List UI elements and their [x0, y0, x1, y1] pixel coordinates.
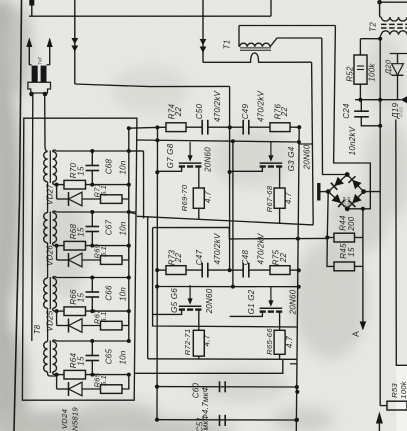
resistor R74	[166, 123, 202, 132]
label 470/2kV of C48	[256, 233, 265, 265]
junction right rail snubber2	[295, 418, 299, 422]
arrow up on output rail	[376, 412, 383, 431]
junction source G3G4 at mid rail	[228, 170, 232, 174]
capacitor C67	[86, 212, 100, 246]
label C24	[342, 103, 351, 119]
wire L1 down right of T1 (to bridge bottom)	[334, 26, 371, 209]
transformer T2 winding upper	[380, 0, 407, 21]
wire T1 secondary with hump	[203, 53, 312, 62]
mosfet pair G5 G6	[153, 285, 202, 330]
junction bus-cap cell VD26	[90, 210, 94, 214]
svg-text:R67-68: R67-68	[265, 185, 274, 212]
junction midpoint to bridge rail	[296, 237, 300, 241]
svg-text:15: 15	[347, 247, 356, 257]
resistor R45	[334, 262, 363, 271]
svg-text:VD25: VD25	[46, 310, 55, 331]
resistor R67-68	[274, 188, 285, 224]
wire T2 bottom to R52 top	[360, 37, 382, 41]
junction R44 tap	[325, 235, 329, 239]
enclosure box of T8 module	[22, 118, 136, 400]
resistor R68	[57, 241, 129, 250]
label 100k of R52	[368, 63, 377, 82]
svg-text:R53: R53	[390, 383, 399, 398]
label R64	[69, 352, 78, 368]
svg-text:ТкГ: ТкГ	[38, 56, 44, 64]
junction lower gate at rail 157	[155, 285, 159, 289]
svg-text:100k: 100k	[368, 63, 377, 82]
label 470/2kV of C47	[213, 233, 222, 265]
wire right rail x=298 (drain bus)	[296, 127, 299, 431]
svg-text:Т2: Т2	[369, 22, 378, 32]
wire rail x=128.8 (cells right rail)	[128, 128, 130, 341]
junction plug pin 2	[43, 92, 48, 97]
label 15 of R64	[77, 356, 86, 366]
terminal bar left of bridge	[319, 183, 328, 201]
label 15 of R45	[347, 247, 356, 257]
svg-text:200: 200	[347, 216, 356, 231]
label T1	[223, 40, 232, 50]
capacitor C24	[354, 100, 382, 128]
junction snubber bottom right	[294, 418, 298, 422]
junction bridge top	[345, 172, 350, 177]
label T2	[369, 22, 378, 32]
svg-text:C48: C48	[241, 249, 250, 265]
svg-text:22: 22	[174, 253, 183, 264]
junction drive mid upper	[228, 125, 232, 129]
junction bus-rail cell VD26	[127, 210, 131, 214]
transformer T8 winding pair cell VD27	[44, 150, 57, 213]
wire secondary bus of cell VD27	[57, 150, 144, 152]
wire plug pin1 down (primary return)	[32, 96, 33, 341]
junction R-row rail cell VD25	[127, 309, 131, 313]
label 20N60 of G5G6	[205, 288, 214, 314]
transformer T8 winding pair cell VD26	[44, 211, 57, 278]
resistor R76	[270, 123, 299, 132]
label TkG of connector	[38, 56, 44, 64]
transformer T2 winding lower	[380, 31, 407, 39]
junction winding-bottom cell VD27	[55, 183, 59, 187]
wire up at x=271 to top edge	[270, 0, 272, 16]
label C49	[241, 103, 250, 119]
svg-text:C24: C24	[342, 103, 351, 119]
junction bus-cap cell VD25	[90, 276, 94, 280]
svg-text:G3 G4: G3 G4	[287, 146, 296, 171]
capacitor C66	[86, 278, 100, 312]
svg-text:10n: 10n	[119, 350, 128, 364]
svg-text:R65-66: R65-66	[265, 328, 274, 355]
svg-text:5.1: 5.1	[99, 311, 108, 322]
label A	[351, 331, 361, 337]
label 22 of R76	[280, 107, 289, 118]
wire L2 from T1 winding end down (to bridge top)	[322, 38, 347, 175]
junction bus-cap cell VD24	[90, 339, 94, 343]
label R70	[69, 162, 78, 178]
label 10n of C65	[119, 350, 128, 364]
svg-text:C66: C66	[105, 285, 114, 301]
page border (left edge of scanned sheet)	[14, 0, 22, 431]
svg-text:R72-71: R72-71	[183, 329, 192, 356]
mosfet pair G3 G4	[230, 142, 283, 188]
junction R-row cap cell VD27	[90, 183, 94, 187]
capacitor C65	[86, 341, 100, 375]
wire gate net lower (y=286.5)	[157, 286, 299, 288]
transformer T1 primary	[239, 26, 322, 47]
arrow A (down)	[360, 266, 367, 330]
svg-text:10n: 10n	[119, 221, 128, 235]
svg-text:4.7: 4.7	[203, 334, 212, 346]
svg-text:470/2kV: 470/2kV	[256, 91, 265, 123]
label R67	[93, 309, 102, 324]
junction winding-bottom cell VD26	[55, 244, 59, 248]
label VD26	[46, 245, 55, 266]
label 10n of C68	[119, 160, 128, 174]
label G3 G4	[287, 146, 296, 171]
junction T2 top lead	[377, 0, 407, 5]
label C60	[192, 382, 201, 398]
svg-text:Т1: Т1	[223, 40, 232, 50]
label C48	[241, 249, 250, 265]
label 10n of C67	[119, 221, 128, 235]
label 200 of R44	[347, 216, 356, 231]
svg-text:4.7: 4.7	[285, 336, 294, 348]
svg-text:C68: C68	[105, 158, 114, 174]
label R67-68	[265, 185, 274, 212]
wire stub to top edge (thick mark)	[29, 0, 34, 16]
svg-text:R69-70: R69-70	[180, 184, 189, 211]
wire output top net y=99.7 (R52 bottom / D19)	[355, 98, 401, 102]
label VD27	[46, 184, 55, 205]
label 470/2kV of C49	[256, 91, 265, 123]
svg-text:15: 15	[77, 356, 86, 366]
label 4.7 of R67-68	[284, 192, 293, 204]
svg-text:Т8: Т8	[33, 324, 42, 334]
junction bridge left	[326, 189, 331, 194]
junction gate net at rail 157	[155, 138, 159, 142]
resistor R70-pair 5.1	[101, 185, 129, 204]
svg-text:C50: C50	[195, 103, 204, 119]
junction snubber top right	[295, 385, 299, 389]
svg-text:C49: C49	[241, 103, 250, 119]
wire main bus (T1 return)	[137, 216, 313, 225]
junction drive mid lower	[228, 268, 232, 272]
label R74	[167, 103, 176, 119]
bridge diode bottom-right (filled)	[349, 194, 362, 207]
svg-text:Д1-Д4: Д1-Д4	[343, 197, 347, 208]
wire snubber stub right	[290, 363, 297, 365]
svg-text:10n: 10n	[119, 287, 128, 301]
label D20	[384, 59, 393, 75]
transformer T8 label	[33, 324, 42, 334]
rectifier bridge VD17-VD20 diamond	[328, 175, 363, 209]
label C68	[105, 158, 114, 174]
wire D19 branch down to output box	[396, 120, 407, 431]
svg-text:470/2kV: 470/2kV	[256, 233, 265, 265]
svg-text:C60: C60	[192, 382, 201, 398]
junction upper RC at rail 157	[155, 125, 159, 129]
svg-text:R52: R52	[346, 66, 355, 82]
svg-text:15: 15	[77, 166, 86, 176]
wire R44/R45 right rail from bridge-bottom net	[361, 207, 365, 267]
arrow down at x=203 (T1 secondary lead)	[200, 0, 207, 62]
wire plug pin2 down to T8 primary top	[45, 96, 48, 152]
svg-text:470/2kV: 470/2kV	[213, 233, 222, 265]
resistor R68-pair 5.1	[101, 246, 129, 265]
label R52	[346, 66, 355, 82]
svg-text:20N60: 20N60	[303, 144, 312, 170]
wire mid rail B	[232, 141, 234, 286]
label 22 of R73	[174, 253, 183, 264]
label R76	[274, 103, 283, 119]
capacitor C49	[230, 120, 270, 135]
label R53	[390, 383, 399, 398]
label R69	[93, 243, 102, 258]
transformer T2 core	[381, 24, 407, 28]
svg-text:G7 G8: G7 G8	[166, 143, 175, 168]
label 5.1 of R71	[99, 185, 108, 196]
junction lower gate mid rail	[231, 285, 235, 289]
connector XP1 plug body	[28, 65, 51, 93]
capacitor C47	[202, 263, 229, 278]
wire secondary bus of cell VD26	[57, 212, 137, 214]
label R69-70	[180, 184, 189, 211]
label C66	[105, 285, 114, 301]
svg-text:С51: С51	[196, 417, 205, 431]
svg-text:C65: C65	[105, 348, 114, 364]
svg-text:20N60: 20N60	[205, 288, 214, 314]
wire W1 from arrow x=74.8 to middle rail	[75, 84, 230, 87]
svg-text:4.7: 4.7	[284, 192, 293, 204]
label 4.7 of R65-66	[285, 336, 294, 348]
diode VD26	[57, 246, 101, 267]
label R73	[168, 249, 177, 265]
svg-text:10n2kV: 10n2kV	[348, 126, 357, 155]
svg-text:100k: 100k	[399, 380, 407, 399]
transformer T1 core	[240, 48, 271, 50]
transformer T8 winding pair cell VD24	[44, 340, 57, 376]
label R45	[339, 243, 348, 259]
svg-text:5.1: 5.1	[99, 375, 108, 386]
junction winding-bottom cell VD24	[55, 373, 59, 377]
label R71	[93, 183, 102, 198]
svg-text:5.1: 5.1	[99, 185, 108, 196]
junction bus-rail cell VD27	[127, 149, 131, 153]
label 4.7 of R69-70	[204, 191, 213, 203]
label G1 G2	[247, 289, 256, 314]
arrow down at x=74.8 (drive mid input)	[71, 0, 78, 84]
junction plug pin 1	[29, 92, 34, 97]
label 5.1 of R65	[99, 375, 108, 386]
wire gate-RC net lower (y=270)	[157, 269, 166, 271]
junction bus-rail cell VD25	[127, 276, 131, 280]
wire cell2 bus branch down rail x=147.7	[147, 216, 149, 358]
junction source G7G8 at rail	[155, 170, 159, 174]
resistor R66-pair 5.1	[101, 311, 129, 330]
wire gate net stub to L3	[299, 143, 313, 145]
transformer T8 winding pair cell VD25	[44, 277, 57, 342]
label 15 of R70	[77, 166, 86, 176]
wire rail x=157.4 (drive return rail)	[156, 127, 159, 420]
wire snubber bottom y=419.7	[157, 419, 297, 421]
wire secondary bus of cell VD25	[57, 277, 129, 279]
wire top horizontal net y=16	[29, 15, 271, 17]
label R44	[339, 215, 348, 231]
resistor R64	[57, 370, 129, 379]
label 470/2kV of C50	[213, 91, 222, 123]
junction snubber top left	[155, 385, 159, 389]
junction bridge right	[361, 189, 366, 194]
wire R44/R45 left rail lower	[327, 238, 334, 267]
label C65	[105, 348, 114, 364]
label 22 of R75	[279, 253, 288, 264]
label 4.7mkF of C60	[201, 385, 210, 430]
label 22 of R74	[174, 107, 183, 118]
label 10n2kV of C24	[348, 126, 357, 155]
svg-text:15: 15	[77, 293, 86, 303]
bridge diode top-left (filled)	[331, 177, 344, 190]
label R68	[69, 223, 78, 239]
svg-text:N5819: N5819	[71, 407, 80, 431]
capacitor C60	[220, 381, 226, 392]
wire gate-RC net upper (y=127)	[129, 127, 166, 128]
wire lower cell frame	[153, 227, 328, 327]
wire cell1 bus branch down to main bus	[143, 151, 145, 218]
label 10n of C66	[119, 287, 128, 301]
bridge diode top-right (filled)	[349, 176, 362, 189]
label 100k of R53	[399, 380, 407, 399]
svg-text:G5 G6: G5 G6	[170, 288, 179, 313]
svg-text:Д20: Д20	[384, 59, 393, 75]
junction R-row rail cell VD27	[127, 183, 131, 187]
label G7 G8	[166, 143, 175, 168]
label R75	[272, 249, 281, 265]
wire L3 from T1 secondary down (to MOSFET source bus)	[312, 62, 314, 225]
junction snubber bottom left	[155, 418, 159, 422]
mosfet pair G7 G8	[157, 142, 201, 188]
label 4.7 of R72-71	[203, 334, 212, 346]
arrow mains N (up)	[47, 38, 53, 66]
label C51	[196, 417, 205, 431]
label C67	[105, 219, 114, 235]
wire right rail from T2 down to R53	[379, 39, 381, 406]
wire bridge right to T2 rail	[364, 191, 381, 193]
resistor R69-70	[193, 188, 204, 219]
svg-text:22: 22	[280, 107, 289, 118]
label R65-66	[265, 328, 274, 355]
resistor R75	[270, 266, 299, 275]
bridge diode bottom-left (filled)	[331, 194, 344, 207]
capacitor C51	[220, 415, 226, 426]
junction gate net right rail	[297, 140, 301, 144]
junction R-row cap cell VD26	[90, 244, 94, 248]
arrow mains L (up)	[26, 38, 32, 66]
resistor R70	[57, 180, 129, 189]
resistor R72-71	[193, 330, 204, 359]
mosfet pair G1 G2	[230, 287, 283, 330]
label D15-18 inside bridge	[343, 197, 352, 210]
label R72-71	[183, 329, 192, 356]
label 5.1 of R69	[99, 246, 108, 257]
svg-text:470/2kV: 470/2kV	[213, 91, 222, 123]
svg-text:G1 G2: G1 G2	[247, 289, 256, 314]
label VD25	[46, 310, 55, 331]
junction R-row cap cell VD25	[90, 309, 94, 313]
junction rail-gate-wire	[127, 126, 131, 130]
wire mid rail A (from W1)	[229, 86, 231, 270]
svg-text:22: 22	[174, 107, 183, 118]
label 15 of R68	[77, 227, 86, 237]
label 15 of R66	[77, 293, 86, 303]
label VD24 (below box)	[60, 409, 69, 429]
label 5.1 of R67	[99, 311, 108, 322]
wire drain bottoms net y=358.8	[148, 358, 298, 361]
wire bridge left down to R44/R45 rail	[326, 192, 329, 238]
label C47	[195, 249, 204, 265]
svg-text:R49: R49	[399, 107, 405, 118]
svg-text:4.7: 4.7	[204, 191, 213, 203]
resistor R66	[57, 307, 129, 316]
junction lower RC at rail 157	[155, 268, 159, 272]
label 20N60 of G1G2	[289, 289, 298, 315]
junction R-row rail cell VD26	[127, 244, 131, 248]
junction lower gate right rail	[297, 285, 301, 289]
junction R-row cap cell VD24	[90, 373, 94, 377]
svg-text:VD26: VD26	[46, 245, 55, 266]
diode VD24	[57, 375, 101, 396]
capacitor C48	[230, 263, 270, 278]
wire snubber top y=386.6	[157, 386, 297, 388]
svg-text:A: A	[351, 331, 361, 337]
label R66	[69, 289, 78, 305]
label C50	[195, 103, 204, 119]
diode D20	[390, 54, 407, 100]
junction winding-bottom cell VD25	[55, 309, 59, 313]
resistor R73	[166, 266, 202, 275]
svg-text:VD27: VD27	[46, 184, 55, 205]
svg-text:VD24: VD24	[60, 409, 69, 429]
label R65	[93, 372, 102, 387]
capacitor C50	[202, 120, 229, 135]
label G5 G6	[170, 288, 179, 313]
label R49 faint	[399, 107, 405, 118]
diode VD25	[57, 311, 101, 332]
label D19	[391, 103, 400, 120]
resistor R65-66	[274, 330, 285, 359]
wire return net y=373.3	[135, 359, 283, 373]
junction bus-cap cell VD27	[90, 149, 94, 153]
svg-text:C67: C67	[105, 219, 114, 235]
svg-text:22: 22	[279, 253, 288, 264]
svg-text:15: 15	[77, 227, 86, 237]
diode VD27	[57, 185, 101, 206]
junction gate net mid rail	[231, 139, 235, 143]
resistor R44	[327, 233, 363, 242]
svg-text:10n: 10n	[119, 160, 128, 174]
resistor R64-pair 5.1	[101, 375, 129, 394]
junction lower RC right rail	[297, 268, 301, 272]
wire T1 top to L1 corner	[239, 25, 335, 27]
junction R-row rail cell VD24	[127, 373, 131, 377]
resistor R53	[380, 401, 407, 410]
junction right rail snubber1	[295, 390, 299, 394]
junction upper RC right rail	[297, 125, 301, 129]
label 20N60 of G3G4	[303, 144, 312, 170]
capacitor C68	[86, 151, 100, 185]
svg-text:C47: C47	[195, 249, 204, 265]
wire gate net upper (y=141)	[137, 140, 299, 142]
junction bridge bottom	[345, 206, 350, 211]
wire secondary bus of cell VD24	[57, 340, 129, 342]
svg-text:5.1: 5.1	[99, 246, 108, 257]
